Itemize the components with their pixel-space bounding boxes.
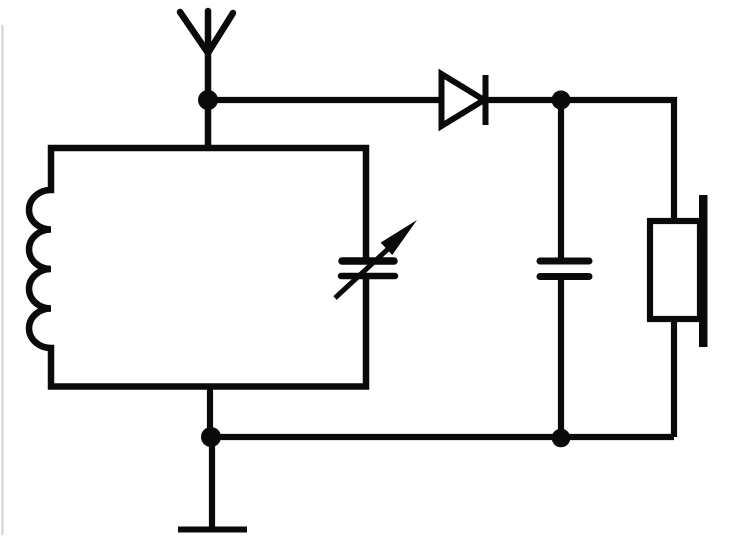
tank circuit loop with inductor L1 (left side coil) bbox=[29, 148, 366, 387]
wire: diode cathode to node B bbox=[484, 97, 561, 103]
fixed capacitor C1 : plates bbox=[540, 261, 589, 277]
node B (diode / capacitor junction) bbox=[552, 91, 571, 110]
fixed capacitor C1 : bottom lead bbox=[558, 280, 564, 437]
diode D1 bbox=[442, 74, 486, 126]
wire: tank loop bottom to node D bbox=[207, 387, 213, 438]
antenna bbox=[180, 11, 233, 100]
node A (antenna / top wire junction) bbox=[198, 90, 218, 110]
variable capacitor C2 : adjustment arrow bbox=[335, 249, 388, 298]
wire: node A to diode anode bbox=[208, 97, 441, 103]
fixed capacitor C1 : top lead bbox=[558, 100, 564, 258]
node D (bottom junction) bbox=[201, 427, 221, 447]
scan edge artifact left bbox=[2, 25, 4, 535]
wire: node B right and down to earphone bbox=[561, 100, 674, 221]
node C (capacitor / bottom rail junction) bbox=[552, 429, 571, 448]
variable capacitor C2 : plates bbox=[341, 261, 395, 276]
earphone (crystal earpiece) bbox=[650, 221, 700, 319]
wire: node A down to tank loop top bbox=[205, 100, 212, 148]
ground lead bbox=[209, 437, 215, 527]
wire: bottom rail bbox=[211, 434, 674, 440]
wire: earphone bottom down to bottom rail bbox=[671, 319, 677, 437]
ground bbox=[178, 527, 247, 533]
